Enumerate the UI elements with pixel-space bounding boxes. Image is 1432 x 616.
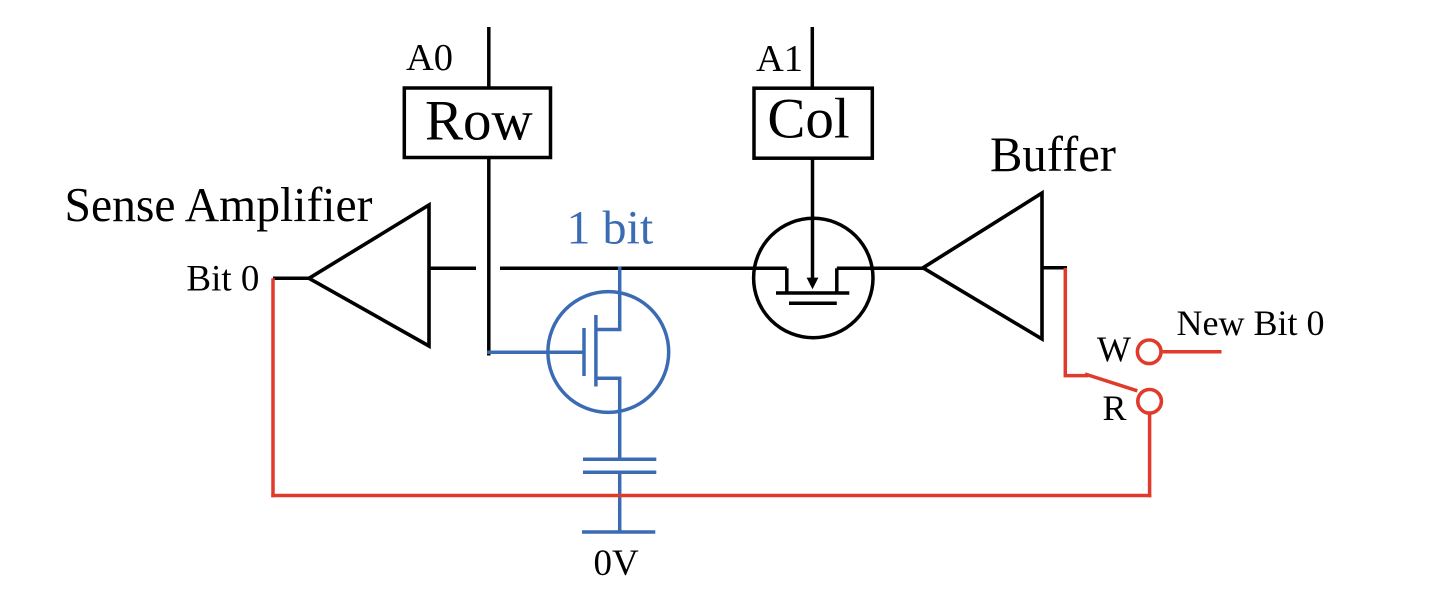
transistor Q1 drain lead: [596, 267, 620, 330]
wire Col select line with arrow into pass transistor: [811, 158, 815, 281]
transistor Q1 channel bar: [594, 315, 598, 387]
wire sense amp output to Bit 0 node: [273, 277, 310, 281]
capacitor C1 bottom plate (blue): [583, 471, 656, 475]
switch blade toward R contact: [1085, 374, 1137, 391]
ground 0V bar: [582, 530, 655, 534]
wire red from Bit 0 node down: [271, 278, 275, 497]
switch R contact circle: [1138, 390, 1162, 414]
wire red from buffer input down to switch pivot: [1065, 268, 1088, 376]
wire capacitor to ground (blue): [618, 472, 622, 532]
svg-text:Sense Amplifier: Sense Amplifier: [65, 177, 373, 232]
op-amp U2 buffer triangle: [923, 193, 1042, 339]
switch W contact circle: [1137, 340, 1161, 364]
wire gate lead from word line (blue): [487, 350, 584, 354]
transistor Q2 pass gate circle: [754, 218, 873, 337]
transistor Q1 source lead: [596, 378, 620, 459]
svg-text:New Bit 0: New Bit 0: [1177, 303, 1325, 343]
wire A0 input (top of Row box): [487, 27, 491, 88]
wire A1 input (top of Col box): [811, 27, 815, 88]
svg-text:1 bit: 1 bit: [567, 202, 654, 255]
capacitor C1 top plate (blue): [583, 458, 656, 462]
svg-text:Col: Col: [767, 88, 849, 151]
arrowhead of Col select: [807, 278, 819, 290]
wire red from R contact down: [1148, 413, 1152, 497]
transistor Q2 right lead step: [835, 268, 839, 293]
svg-text:A0: A0: [406, 37, 453, 79]
svg-text:Bit 0: Bit 0: [186, 259, 259, 300]
svg-text:Row: Row: [425, 90, 533, 153]
wire red feedback bottom: [271, 494, 1151, 498]
svg-text:R: R: [1103, 388, 1127, 428]
svg-text:W: W: [1097, 329, 1131, 369]
transistor Q1 storage cell circle (blue): [548, 292, 669, 413]
Col decoder box: [754, 88, 872, 158]
wire Row word line (down from Row box, crossing bit line): [487, 157, 491, 356]
transistor Q2 top plate: [776, 291, 849, 295]
transistor Q1 gate bar: [582, 328, 586, 376]
transistor Q2 gate plate: [789, 302, 837, 306]
op-amp U1 sense amplifier triangle: [309, 205, 429, 346]
svg-text:Buffer: Buffer: [990, 126, 1116, 182]
transistor Q2 left lead step: [785, 268, 789, 293]
wire New Bit 0 lead from W contact: [1163, 350, 1222, 354]
Row decoder box: [404, 88, 550, 158]
wire bit line (main horizontal): [500, 267, 787, 271]
svg-text:0V: 0V: [594, 543, 640, 584]
wire bit line stub into sense amp input: [429, 267, 476, 271]
wire buffer input stub: [1042, 266, 1067, 270]
svg-text:A1: A1: [756, 38, 803, 80]
wire bit line right segment to buffer: [837, 267, 924, 271]
